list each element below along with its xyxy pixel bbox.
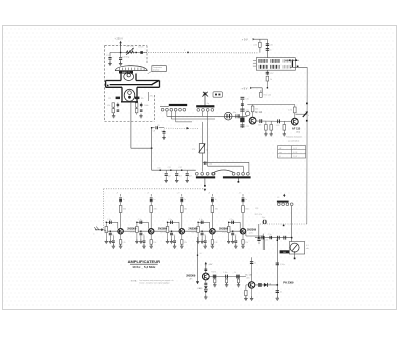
antenna switch stroke: [296, 111, 310, 117]
wire top-left bar lead: [160, 105, 169, 107]
svg-text:Tensions mesurees: Tensions mesurees: [286, 136, 302, 139]
ground AF drop 1: [225, 283, 228, 287]
ground bypass stage 1: [109, 239, 112, 243]
meter label plate (dark): [280, 250, 290, 254]
svg-text:C17: C17: [270, 73, 273, 75]
svg-text:1n: 1n: [254, 263, 256, 265]
tube V1 type plate EABC80: [119, 71, 133, 74]
transistor Q8 AF amp: [202, 273, 209, 280]
svg-text:(-0,2V): (-0,2V): [191, 232, 196, 234]
svg-text:+ 9 V: + 9 V: [242, 88, 248, 91]
junction node rail-R1: [136, 52, 137, 53]
ground R15: [270, 132, 273, 136]
capacitor C24 between risers: [204, 162, 212, 166]
terminal circles under bar 1: [161, 108, 185, 111]
ground bias stage 1: [105, 239, 108, 243]
terminal circles gang section B: [232, 172, 249, 175]
resistor R42 emitter: [150, 234, 156, 245]
junction det left: [258, 237, 260, 239]
junction T1 tap 3: [295, 59, 297, 61]
resistor R11: [260, 90, 271, 97]
junction square on tube left edge: [107, 85, 109, 87]
svg-text:4n7: 4n7: [189, 175, 192, 177]
svg-text:(-0,2V): (-0,2V): [222, 232, 227, 234]
svg-text:NOTA :: NOTA :: [131, 280, 138, 283]
capacitor C19: [276, 119, 280, 126]
capacitor C3 feedthrough: [138, 47, 144, 54]
tube V1 anode bar electrode: [110, 84, 153, 86]
svg-text:C 1n: C 1n: [168, 219, 172, 221]
junction base stage 2: [136, 222, 141, 232]
resistor R25 collector: [242, 206, 249, 229]
svg-text:330: 330: [154, 209, 157, 211]
transistor Q9 detector: [248, 282, 254, 288]
ferrite rod antenna bar (dark): [277, 201, 289, 203]
svg-text:+9: +9: [177, 192, 179, 194]
svg-text:1,5k: 1,5k: [245, 242, 248, 244]
svg-text:4n: 4n: [173, 234, 175, 236]
resistor R16: [283, 121, 286, 133]
junction Q9 line: [277, 284, 279, 286]
ground tuner pad 3: [186, 178, 189, 182]
resistor R22 collector: [150, 206, 157, 229]
svg-text:(-2V): (-2V): [249, 232, 253, 234]
supply arrow +9V AF: [204, 262, 212, 273]
wire stage 5 coupling: [229, 222, 241, 228]
svg-text:C 1n: C 1n: [230, 219, 234, 221]
capacitor C62 emitter: [143, 236, 146, 246]
svg-text:C 1n: C 1n: [199, 219, 203, 221]
ground tuner pad 1: [165, 178, 168, 182]
svg-text:C10: C10: [157, 167, 160, 169]
wire stub circles bar2: [203, 111, 208, 122]
capacitor C9 input filter: [157, 125, 166, 137]
wire gang rect outer: [203, 162, 249, 172]
tube V1 body outline (thick): [106, 74, 160, 102]
svg-text:4n: 4n: [280, 292, 282, 294]
capacitor C5: [117, 110, 120, 111]
IF stage 4 supply text: [208, 192, 210, 194]
capacitor C66 on bus: [276, 291, 282, 294]
dial drive arrow symbol: [202, 92, 208, 106]
svg-text:osc: osc: [279, 152, 282, 154]
capacitor C44 coupling: [199, 219, 203, 224]
svg-text:AF 114: AF 114: [255, 111, 263, 114]
tube V1 triode element (upper): [124, 73, 134, 81]
svg-text:C2 50µ: C2 50µ: [122, 57, 130, 59]
svg-text:1,2k: 1,2k: [107, 105, 111, 107]
wire coupling riser: [151, 128, 153, 171]
ground emitter res stage 4: [211, 244, 214, 248]
resistor R34 bias: [192, 222, 199, 240]
transistor Q3 IF stage 1: [118, 228, 124, 234]
resistor R5 (dark): [135, 97, 144, 100]
junction bus dot 1: [306, 103, 308, 105]
svg-text:C9: C9: [157, 125, 159, 127]
wire gang rect inner: [208, 166, 244, 172]
svg-text:1n: 1n: [123, 199, 125, 201]
svg-text:Les tensions sont mesurees par: Les tensions sont mesurees par rapport a…: [139, 279, 173, 282]
input arrow and hatches: [94, 227, 106, 232]
resistor R10: [266, 76, 272, 88]
capacitor C51 on AF line: [223, 272, 228, 279]
tuning meter M1: [289, 242, 309, 254]
capacitor C63 emitter: [173, 236, 176, 246]
label last IF stage right: [247, 227, 257, 234]
ground bias stage 3: [166, 239, 169, 243]
T1 input terminals: [253, 60, 256, 66]
svg-text:4n7: 4n7: [168, 175, 171, 177]
label Q5 2N2369: [158, 226, 168, 233]
wire meter feed vertical: [291, 206, 293, 243]
ground emitter cap stage 5: [234, 244, 237, 248]
resistor R44 emitter: [211, 234, 217, 245]
junction bead on dotted line: [184, 49, 189, 53]
svg-text:C 4n: C 4n: [264, 239, 268, 241]
svg-text:2N2369: 2N2369: [188, 226, 198, 230]
svg-text:2N2369: 2N2369: [247, 227, 257, 231]
wire stage 3 coupling: [168, 222, 180, 228]
svg-text:1k: 1k: [234, 272, 236, 274]
wire tuner bus: [152, 169, 196, 171]
ground emitter res stage 2: [150, 244, 153, 248]
label PH2369 (bold): [283, 280, 294, 284]
svg-text:40p: 40p: [233, 112, 236, 114]
resistor R8 column: [148, 92, 152, 101]
wire filter rail: [110, 52, 147, 54]
svg-text:100k: 100k: [144, 105, 148, 107]
svg-text:OA85: OA85: [197, 287, 203, 290]
transistor Q7 IF stage 5: [240, 228, 246, 234]
capacitor C51 bypass below line: [109, 231, 114, 240]
capacitor C64: [284, 236, 286, 240]
svg-text:R1 2,2k: R1 2,2k: [127, 46, 135, 48]
svg-text:(-0,2V): (-0,2V): [130, 232, 135, 234]
capacitor C out: [257, 236, 268, 244]
wire bend to coupling node: [131, 147, 152, 149]
ground bias stage 2: [135, 239, 138, 243]
capacitor C under Q8: [204, 283, 207, 285]
arrowhead AGC down: [204, 189, 207, 192]
capacitor C45 coupling: [230, 219, 234, 224]
svg-text:47k: 47k: [150, 95, 153, 97]
svg-text:4n: 4n: [112, 234, 114, 236]
resistor R7: [135, 109, 138, 113]
resistor R72 under Q9 left: [245, 285, 249, 298]
svg-text:R17 4,7k: R17 4,7k: [255, 214, 262, 216]
resistor R33 bias: [162, 222, 169, 240]
capacitor C14 tuner padding: [175, 170, 182, 179]
wire trimmer riser: [202, 122, 204, 172]
tube V1 pin ticks: [119, 68, 144, 71]
tube V1 envelope dome: [115, 66, 147, 71]
capacitor C31 collector: [119, 194, 125, 206]
svg-text:1,5k: 1,5k: [122, 242, 125, 244]
transistor Q6 IF stage 4: [210, 228, 216, 234]
ferrite bar top-left (dark): [169, 104, 187, 106]
svg-text:4n: 4n: [143, 234, 145, 236]
callout box tube note: [152, 66, 167, 72]
svg-text:C 2n: C 2n: [268, 234, 272, 236]
capacitor C64 emitter: [204, 236, 207, 246]
label Q4 2N2369: [127, 226, 137, 233]
wire last stage output: [246, 231, 263, 236]
ground emitter cap stage 4: [204, 244, 207, 248]
IF transformer T1 can: [256, 58, 295, 70]
capacitor C55 bypass below line: [231, 231, 236, 240]
oscillator coil comb: [236, 114, 240, 118]
junction base stage 1: [106, 222, 111, 232]
resistor R61 AF drop: [226, 279, 228, 285]
wire dashed AGC line vertical: [103, 189, 105, 229]
capacitor C15: [266, 44, 273, 47]
junction tuner bus 1: [157, 167, 161, 171]
dial lamp box: [213, 92, 222, 97]
capacitor C4: [117, 103, 120, 108]
svg-text:C 1n: C 1n: [138, 219, 142, 221]
svg-text:C22: C22: [246, 126, 249, 128]
capacitor C7: [140, 110, 143, 111]
resistor R4: [112, 109, 115, 113]
trim capacitor on AGC line: [262, 217, 267, 224]
svg-text:PH 2369: PH 2369: [283, 280, 294, 284]
note text lines: [286, 136, 302, 143]
resistor R13: [288, 105, 296, 119]
capacitor C35 collector: [242, 194, 248, 206]
label Q6 2N2369: [188, 226, 198, 233]
capacitor C6: [140, 103, 143, 108]
svg-text:1,5k: 1,5k: [214, 242, 217, 244]
capacitor C43 coupling: [168, 219, 172, 224]
wire long vertical feed: [197, 237, 199, 283]
svg-text:1,5k: 1,5k: [184, 242, 187, 244]
wire double vertical out: [263, 234, 264, 250]
wire to main vertical bus: [290, 66, 307, 68]
svg-text:R 470: R 470: [212, 272, 217, 274]
ground Q9 emitter: [250, 296, 253, 300]
wire AF output line: [209, 276, 246, 278]
junction coupling node: [151, 147, 153, 149]
wire +9V second feed: [250, 88, 262, 93]
svg-text:500: 500: [283, 252, 286, 254]
wire AGC return corner: [259, 224, 307, 238]
svg-text:C8: C8: [153, 131, 155, 133]
ground emitter cap stage 3: [173, 244, 176, 248]
svg-text:4,7k: 4,7k: [288, 110, 292, 112]
svg-text:330: 330: [184, 209, 187, 211]
svg-text:(116): (116): [296, 131, 301, 133]
diode D3 det: [264, 283, 272, 287]
ground under C1: [108, 62, 111, 66]
wire AGC pickoff: [204, 178, 206, 185]
ground bypass stage 5: [231, 239, 234, 243]
svg-text:C21: C21: [246, 110, 249, 112]
svg-text:HF: HF: [279, 148, 281, 150]
capacitor C18: [258, 119, 262, 126]
wire stage 4 coupling: [198, 222, 210, 228]
capacitor C41 coupling: [107, 219, 111, 224]
transistor Q2 oscillator: [291, 118, 298, 125]
junction T1 tap 1: [289, 60, 290, 61]
svg-text:R11 1,2k: R11 1,2k: [264, 94, 271, 96]
junction AGC pickoff: [204, 185, 206, 187]
svg-text:4n: 4n: [235, 234, 237, 236]
svg-text:330: 330: [245, 209, 248, 211]
tube V1 triode element (lower): [124, 89, 135, 101]
svg-text:C23: C23: [255, 208, 258, 210]
wire dotted HT distribution line to converter: [144, 52, 258, 54]
terminal circle jumper left: [212, 172, 215, 175]
wire main vertical bus (right): [306, 67, 308, 224]
junction node rail-C2: [120, 52, 121, 53]
resistor R1 (pot with arrow): [126, 46, 135, 55]
svg-text:2N2369: 2N2369: [158, 226, 168, 230]
ground under C2: [119, 62, 122, 66]
callout pointer wire: [148, 71, 152, 74]
svg-text:1n: 1n: [215, 199, 217, 201]
ground bias stage 5: [227, 239, 230, 243]
capacitor C53 bypass below line: [170, 231, 175, 240]
capacitor C1 50u: [106, 53, 112, 64]
label AF116 (bold): [0, 0, 1, 1]
svg-text:10k: 10k: [255, 108, 258, 110]
svg-text:6p: 6p: [207, 103, 209, 105]
junction T1 bottom: [297, 66, 299, 68]
terminal circles under bar 2: [197, 109, 214, 112]
wire detector line: [255, 237, 292, 239]
T1 core bar (dark): [291, 61, 293, 67]
transistor Q1 converter: [249, 117, 256, 124]
svg-text:R5: R5: [141, 98, 143, 100]
IF stage 2 supply text: [147, 192, 149, 194]
ground R16: [283, 132, 286, 136]
junction rotor stub B: [238, 181, 240, 183]
wire detector bus vertical: [276, 240, 278, 297]
ground bias stage 4: [196, 239, 199, 243]
ground bypass stage 3: [170, 239, 173, 243]
svg-text:(2N): (2N): [246, 277, 250, 279]
svg-text:4n7: 4n7: [179, 175, 182, 177]
resistor R60 AF drop: [214, 279, 216, 285]
svg-text:h: h: [308, 115, 309, 117]
junction base stage 4: [197, 222, 202, 232]
nota text block: [131, 279, 174, 285]
ground emitter cap stage 2: [142, 244, 145, 248]
junction tuner bus 3: [178, 167, 182, 171]
wire Q1-Q2 link: [256, 120, 291, 122]
label Q7 2N2369: [219, 226, 229, 233]
svg-text:C24: C24: [209, 164, 212, 166]
svg-text:C15: C15: [269, 45, 272, 47]
wire gang link row 2: [171, 111, 215, 119]
svg-text:e: e: [93, 234, 94, 236]
resistor R32 bias: [131, 222, 138, 240]
wire second riser: [207, 122, 209, 166]
ground AF drop 2: [237, 283, 240, 287]
svg-text:AF 115: AF 115: [292, 126, 301, 130]
junction tuner bus 2: [168, 167, 172, 171]
label Q1: [255, 111, 263, 114]
resistor R12: [251, 105, 258, 118]
IF stage 5 supply text: [239, 192, 241, 194]
wire Q9 to det bus: [255, 284, 277, 286]
capacitor C13 tuner padding: [165, 170, 172, 179]
svg-text:2N2369: 2N2369: [186, 274, 196, 278]
svg-text:R2: R2: [109, 98, 111, 100]
svg-text:C12: C12: [178, 167, 181, 169]
resistor R41 emitter: [119, 234, 125, 245]
resistor R21 collector: [119, 206, 126, 229]
capacitor C65 on bus: [276, 263, 285, 266]
ground emitter cap stage 1: [112, 244, 115, 248]
ground right cathode: [139, 114, 142, 118]
capacitor C17: [266, 70, 274, 75]
svg-text:330: 330: [123, 209, 126, 211]
supply +9V label (second): [242, 87, 253, 91]
ground bypass stage 2: [139, 239, 142, 243]
label input: [93, 234, 94, 236]
ground emitter res stage 5: [241, 244, 244, 248]
capacitor C15 tuner padding: [186, 170, 193, 179]
junction feed tick: [197, 253, 202, 256]
wire stage 1 coupling: [106, 222, 118, 228]
wire stage 2 coupling: [137, 222, 149, 228]
svg-text:L1: L1: [277, 197, 279, 199]
svg-text:C 50µ: C 50µ: [280, 264, 285, 266]
capacitor C62: [268, 234, 272, 240]
resistor R2 grid leak (dark): [109, 97, 121, 100]
svg-text:+9: +9: [200, 253, 202, 255]
junction det bus top: [277, 240, 278, 241]
ferrite bar top-mid (dark): [196, 105, 214, 107]
resistor R71 det: [258, 283, 261, 287]
label Q9: [245, 275, 251, 280]
wire cathode left drop: [112, 107, 114, 114]
svg-text:10 Kc _ 5,2 MHz: 10 Kc _ 5,2 MHz: [132, 265, 156, 269]
svg-text:AMPLIFICATEUR: AMPLIFICATEUR: [128, 259, 160, 264]
junction feed-R10: [267, 87, 268, 88]
capacitor C8 coupling: [152, 126, 164, 133]
capacitor C2 50u: [119, 53, 130, 64]
svg-text:C11: C11: [168, 167, 171, 169]
svg-text:2N2369: 2N2369: [127, 226, 137, 230]
svg-text:+ 9 V: + 9 V: [242, 38, 248, 41]
junction AGC-meter cross: [283, 225, 285, 227]
capacitor C32 collector: [150, 194, 156, 206]
trimmer P1 (box with arrow): [192, 143, 208, 153]
ground bypass stage 4: [200, 239, 203, 243]
ground left cathode: [112, 114, 115, 118]
capacitor C54 bypass below line: [201, 231, 206, 240]
ground det bus: [276, 296, 279, 300]
wire +9V feed: [253, 39, 268, 58]
ground R72: [244, 296, 247, 300]
svg-text:C 10n: C 10n: [223, 272, 228, 274]
svg-text:C19: C19: [276, 125, 279, 127]
power entry arrow: [119, 41, 121, 53]
power rail HT +250V label: [115, 38, 124, 41]
subtitle frequency range: [132, 265, 156, 269]
label under arrow: [207, 103, 209, 105]
svg-text:15p: 15p: [262, 217, 265, 219]
svg-text:5n: 5n: [269, 50, 271, 52]
svg-text:1,5k: 1,5k: [153, 242, 156, 244]
T1 coil B: [271, 59, 280, 69]
junction det right: [291, 237, 293, 239]
wire Q9 emitter: [251, 288, 253, 298]
wire converter rail: [247, 104, 294, 106]
diode D2 under Q8: [197, 280, 207, 296]
